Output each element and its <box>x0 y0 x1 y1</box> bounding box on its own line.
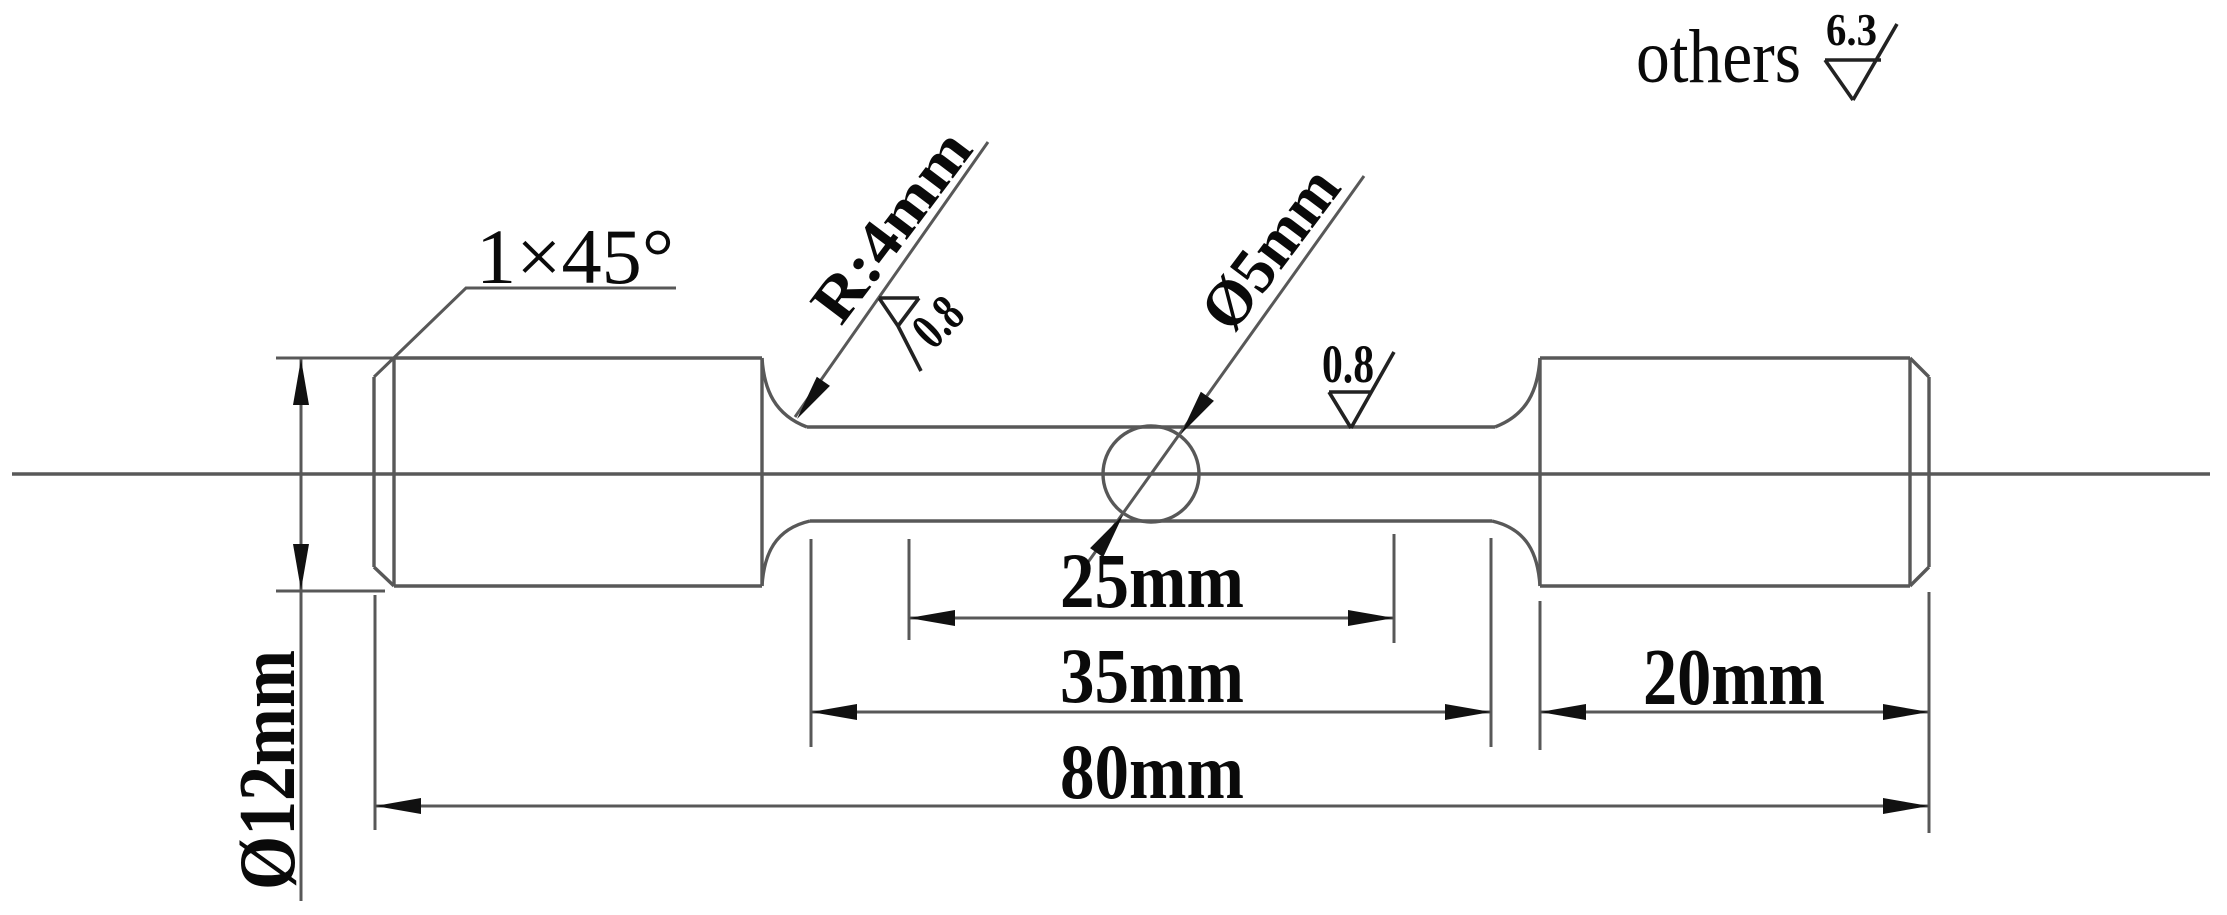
roughness symbol 0.8 at fillet <box>879 298 921 371</box>
80mm dimension line <box>375 805 1929 808</box>
right grip outline <box>1540 358 1910 586</box>
25mm right extension line <box>1393 534 1396 643</box>
roughness symbol 6.3 for others <box>1825 24 1897 100</box>
svg-text:25mm: 25mm <box>1060 537 1244 624</box>
R:4mm leader <box>795 142 988 417</box>
gauge top line <box>807 425 1495 428</box>
svg-text:35mm: 35mm <box>1060 632 1244 719</box>
25mm dimension line <box>909 617 1394 620</box>
35mm right extension line <box>1490 538 1493 747</box>
35mm left extension line <box>810 539 813 747</box>
35mm dimension line <box>811 711 1491 714</box>
Ø12 arrow down <box>293 544 309 590</box>
left end chamfer <box>374 377 394 586</box>
20mm dimension line <box>1540 711 1929 714</box>
R:4mm arrowhead <box>790 377 829 424</box>
35mm arrow left <box>811 704 857 720</box>
svg-text:others: others <box>1636 15 1801 99</box>
svg-text:Ø12mm: Ø12mm <box>224 650 312 890</box>
80mm left extension line <box>374 595 377 830</box>
Ø12 dimension line <box>300 358 303 901</box>
1x45 chamfer leader <box>374 288 676 377</box>
gauge bottom line <box>810 519 1492 522</box>
svg-text:20mm: 20mm <box>1643 634 1825 722</box>
Ø5mm leader <box>1086 176 1364 565</box>
80mm right extension line <box>1928 592 1931 833</box>
25mm arrow right <box>1348 610 1394 626</box>
25mm left extension line <box>908 539 911 640</box>
Ø5mm arrowhead lower <box>1090 510 1129 557</box>
left grip outline <box>394 358 762 586</box>
80mm arrow right <box>1883 798 1929 814</box>
svg-text:80mm: 80mm <box>1060 728 1244 815</box>
gauge circle Ø5 <box>1103 426 1199 522</box>
centerline <box>12 472 2210 475</box>
Ø5mm arrowhead upper <box>1174 392 1213 439</box>
20mm arrow right <box>1883 704 1929 720</box>
Ø12 top extension line <box>276 357 394 360</box>
svg-text:0.8: 0.8 <box>1322 334 1374 394</box>
25mm arrow left <box>909 610 955 626</box>
Ø12 bottom extension line <box>276 590 385 593</box>
80mm arrow left <box>375 798 421 814</box>
fillet bottom-right R4 <box>1492 521 1540 586</box>
fillet top-left R4 <box>762 358 807 427</box>
fillet top-right R4 <box>1495 358 1540 427</box>
svg-text:6.3: 6.3 <box>1826 4 1877 55</box>
roughness symbol 0.8 at gauge <box>1329 352 1394 428</box>
fillet bottom-left R4 <box>762 521 810 586</box>
35mm arrow right <box>1445 704 1491 720</box>
20mm left extension line <box>1539 601 1542 750</box>
right end chamfer <box>1910 358 1929 586</box>
20mm arrow left <box>1540 704 1586 720</box>
svg-text:1×45°: 1×45° <box>476 213 674 300</box>
Ø12 arrow up <box>293 359 309 405</box>
